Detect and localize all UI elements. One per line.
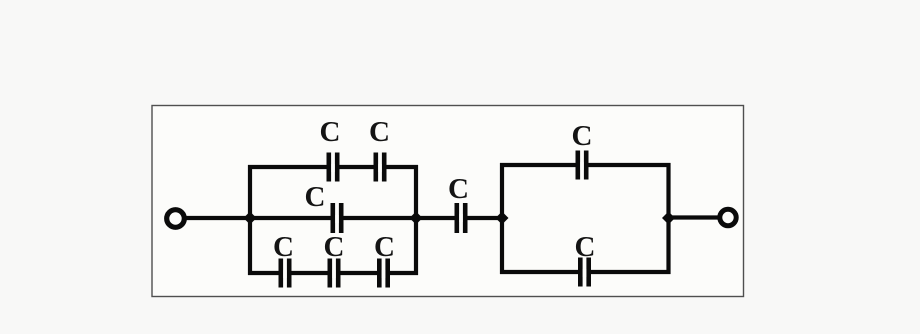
wire: box2 top branch right segment xyxy=(585,163,671,167)
wire: box1 right vertical xyxy=(414,165,418,275)
left terminal xyxy=(167,210,185,228)
svg-text:C: C xyxy=(320,116,341,148)
wire: box2 bottom branch left segment xyxy=(500,270,581,274)
wire: top branch right segment xyxy=(383,165,418,169)
wire: bottom branch segment 4 xyxy=(386,271,418,275)
wire: top branch left segment xyxy=(248,165,330,169)
right terminal xyxy=(720,209,736,225)
wire: node B to series cap xyxy=(416,216,458,220)
svg-text:C: C xyxy=(448,173,469,205)
wire: bottom branch segment 1 xyxy=(248,271,282,275)
wire: box2 bottom branch right segment xyxy=(587,270,671,274)
svg-text:C: C xyxy=(572,120,593,152)
wire: top branch middle segment xyxy=(336,165,377,169)
node A (left junction) xyxy=(244,212,257,225)
border frame xyxy=(152,106,744,297)
wire: middle branch right segment xyxy=(340,216,416,220)
capacitor C (box2 top) xyxy=(578,151,586,180)
capacitor C (series) xyxy=(457,203,465,233)
capacitor C (top-right) xyxy=(376,153,384,182)
wire: node D to right terminal xyxy=(669,215,719,219)
wire: bottom branch segment 2 xyxy=(288,271,331,275)
capacitor C (top-left) xyxy=(329,153,337,182)
svg-text:C: C xyxy=(369,116,390,148)
node D (box2 right junction) xyxy=(662,212,675,225)
wire: box2 left vertical xyxy=(500,163,504,274)
capacitor C (box2 bottom) xyxy=(580,258,588,287)
wire: box1 left vertical xyxy=(248,165,252,275)
node C (box2 left junction) xyxy=(496,212,509,225)
svg-text:C: C xyxy=(273,231,294,263)
svg-text:C: C xyxy=(324,231,345,263)
capacitor C (bottom-right) xyxy=(379,259,387,288)
capacitor C (bottom-middle) xyxy=(330,259,338,288)
wire: bottom branch segment 3 xyxy=(337,271,380,275)
svg-text:C: C xyxy=(305,181,326,213)
svg-text:C: C xyxy=(575,231,596,263)
svg-text:C: C xyxy=(374,231,395,263)
wire: box2 top branch left segment xyxy=(500,163,579,167)
wire: box2 right vertical xyxy=(666,163,670,274)
wire: series cap to node C xyxy=(464,216,502,220)
wire: middle branch left segment xyxy=(250,216,334,220)
node B (box1 right junction) xyxy=(410,212,423,225)
wire: left terminal to node A xyxy=(186,216,252,220)
capacitor C (middle) xyxy=(333,203,341,233)
capacitor C (bottom-left) xyxy=(281,259,289,288)
